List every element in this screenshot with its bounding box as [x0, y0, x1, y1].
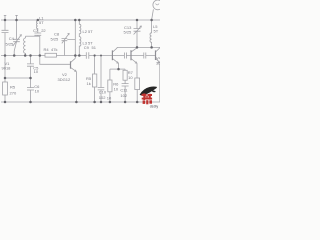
node y78 x5 [4, 77, 7, 80]
resistor R7 box [123, 70, 127, 80]
svg-text:5T: 5T [39, 20, 44, 25]
svg-text:9018: 9018 [2, 66, 12, 71]
wire R6 branch x=111.5 [109, 69, 111, 102]
node ground x5 [4, 101, 7, 104]
wire ground rail [1, 101, 160, 103]
watermark swoosh [140, 86, 157, 95]
node mid bus x30 [29, 54, 32, 57]
node top rail x137 [136, 19, 139, 22]
svg-text:R4: R4 [44, 47, 50, 52]
node mid bus x94 [94, 54, 96, 56]
capacitor C11 plates [122, 84, 129, 86]
node ground x111 [109, 101, 112, 104]
wire stub tick x5 [4, 14, 7, 16]
node emitter y69 x120 [117, 68, 120, 71]
transistor V3 [112, 47, 118, 69]
inductor L5 coil x=151.6 [150, 20, 152, 47]
capacitor C3 plates on x=5 [2, 30, 9, 32]
svg-text:10: 10 [35, 88, 40, 93]
wire R5 top y78 [5, 77, 31, 79]
capacitor C6 plates [27, 88, 34, 90]
svg-text:102: 102 [99, 95, 106, 100]
node mid bus x101 [100, 55, 102, 57]
capacitor C4 trimmer arrow [13, 35, 22, 47]
capacitor C8 trimmer arrow [62, 33, 70, 43]
svg-text:10: 10 [107, 95, 112, 100]
resistor R5 box on x=5 [3, 82, 8, 95]
wire left antenna branch x=5 [4, 16, 6, 103]
node tank y47 x137 [136, 46, 139, 49]
wire C7 output to V2 base at y36.2 [26, 35, 40, 37]
svg-text:dzdiy: dzdiy [150, 104, 159, 108]
wire C7 bottom lead [37, 34, 39, 37]
capacitor C10 plates [98, 88, 105, 90]
node top rail x75 [74, 19, 77, 22]
wire top supply rail [1, 19, 160, 21]
node ground x76 [75, 101, 78, 104]
junction dots [4, 19, 153, 104]
svg-text:3D: 3D [156, 60, 160, 65]
watermark red characters [142, 93, 152, 104]
wire V3 emitter junction y69.5 [110, 68, 125, 70]
node ground x93 [93, 101, 96, 104]
svg-text:10: 10 [114, 86, 119, 91]
svg-text:3DG12: 3DG12 [58, 77, 71, 82]
antenna connector circle top right [153, 0, 163, 10]
svg-text:C9: C9 [84, 45, 90, 50]
transistor V4 [131, 47, 137, 78]
inductor L1 coil at x=37.8 [36, 20, 37, 33]
node mid bus x44 [39, 54, 42, 57]
svg-text:R5: R5 [10, 85, 16, 90]
node top rail x37 [37, 19, 40, 22]
node ground x137 [136, 101, 139, 104]
svg-text:22: 22 [41, 28, 46, 33]
node mid bus x75 [74, 54, 77, 57]
capacitor C12 series plates on base line [124, 53, 126, 59]
svg-text:C4: C4 [9, 36, 15, 41]
inductor coil at x=25.5 [24, 38, 26, 56]
wire C5/C6 shunt branch x=30.5 [30, 56, 32, 103]
wire stub tick x16 [15, 14, 17, 16]
node ground x30 [29, 101, 32, 104]
capacitor C7 plates [34, 33, 41, 35]
svg-text:47k: 47k [51, 47, 57, 52]
svg-text:C7: C7 [33, 28, 39, 33]
svg-text:C11: C11 [120, 87, 128, 92]
capacitor C5 plates [27, 64, 34, 66]
svg-text:1k: 1k [87, 81, 91, 86]
capacitor C9 plates on mid bus [86, 52, 89, 59]
transistor V5 at right edge [156, 47, 160, 102]
wire trimmer branch x=16.5 [14, 16, 16, 56]
watermark swoosh accent [152, 90, 156, 92]
wire R7/C11 branch x=124.7 [124, 69, 126, 102]
node y78 x30 [29, 77, 32, 80]
svg-text:5/25: 5/25 [51, 36, 60, 41]
wire V2 base drop x=44.3 [40, 36, 71, 64]
node mid bus x79 [78, 54, 81, 57]
svg-text:5/25: 5/25 [124, 30, 133, 35]
node ground x124 [124, 101, 127, 104]
wire output tank bottom y47.4 [117, 46, 160, 48]
inductor L2/L3 tapped coil x=79.3 [79, 20, 81, 56]
wire R bias branch x=93 [94, 56, 96, 103]
svg-text:10: 10 [128, 75, 133, 80]
capacitor C14 series plates on base line [144, 53, 146, 59]
capacitor C8 trimmer plates [62, 39, 68, 41]
resistor R4 box on mid bus [45, 53, 57, 57]
node tank y47 x151 [150, 46, 153, 49]
wire mid horizontal bus [1, 55, 156, 57]
node top rail x16 [15, 19, 18, 22]
capacitor C4 trimmer plates [13, 39, 20, 41]
resistor R8 box [135, 78, 140, 90]
wire coil branch x=25.5 [25, 36, 27, 38]
svg-text:10: 10 [34, 69, 39, 74]
resistor R5b box on x=93 [93, 74, 97, 87]
node top rail x5 [4, 19, 7, 22]
capacitor C13 trimmer [134, 20, 142, 47]
svg-text:C10: C10 [99, 90, 107, 95]
svg-text:51: 51 [92, 45, 97, 50]
resistor R6 box [108, 80, 112, 92]
node mid bus x5 [4, 54, 7, 57]
wire C10 branch x=102 [100, 56, 102, 103]
node mid bus x14 [13, 54, 16, 57]
capacitor C8 shunt trimmer branch [64, 40, 75, 56]
svg-text:5T: 5T [154, 29, 159, 34]
svg-text:L2 5T: L2 5T [83, 29, 94, 34]
svg-text:270: 270 [10, 91, 17, 96]
node top rail x151 [150, 19, 153, 22]
svg-text:5/25: 5/25 [6, 41, 15, 46]
node mid bus x24 [24, 54, 27, 57]
transistor V2 [71, 20, 77, 102]
node top rail x79 [78, 19, 81, 22]
svg-text:102: 102 [120, 93, 127, 98]
